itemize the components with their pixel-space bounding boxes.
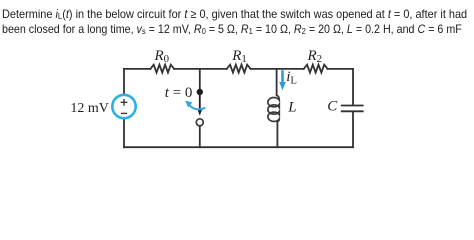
wire top rail right segment: [328, 68, 353, 70]
svg-text:R2: R2: [307, 48, 323, 65]
resistor R0: [150, 65, 174, 73]
wire inductor branch below coil: [276, 122, 278, 148]
wire switch branch from top rail to node: [199, 69, 201, 89]
svg-text:L: L: [287, 100, 296, 116]
switch node dot: [197, 89, 203, 95]
current arrow iL (blue): [281, 70, 284, 83]
wire top rail between R1 and R2: [251, 68, 304, 70]
inductor L coil: [268, 95, 279, 122]
wire left side above source: [123, 69, 125, 95]
wire top rail between R0 and R1: [174, 68, 227, 70]
switch blade arrow (black, pointing down): [199, 94, 201, 110]
wire left side below source: [123, 118, 125, 147]
wire inductor branch from top rail to coil: [276, 69, 278, 96]
resistor R2: [304, 65, 328, 73]
wire right side below capacitor: [352, 112, 354, 147]
svg-text:12 mV: 12 mV: [70, 101, 109, 116]
wire right side above capacitor: [352, 69, 354, 105]
svg-text:C: C: [327, 99, 338, 115]
wire switch branch below open terminal: [199, 126, 201, 147]
switch open terminal circle: [196, 119, 203, 126]
voltage source plus sign: [121, 99, 128, 114]
capacitor C plates: [341, 106, 364, 112]
switch opening motion arc (cyan): [189, 105, 205, 109]
svg-text:R1: R1: [231, 48, 247, 65]
voltage source minus sign: [121, 112, 127, 114]
wire bottom rail: [124, 146, 353, 148]
svg-text:R0: R0: [154, 48, 170, 65]
voltage source circle: [112, 95, 135, 118]
svg-text:t = 0: t = 0: [165, 85, 193, 101]
svg-text:iL: iL: [286, 69, 297, 87]
wire top rail left segment: [124, 68, 150, 70]
resistor R1: [227, 65, 251, 73]
